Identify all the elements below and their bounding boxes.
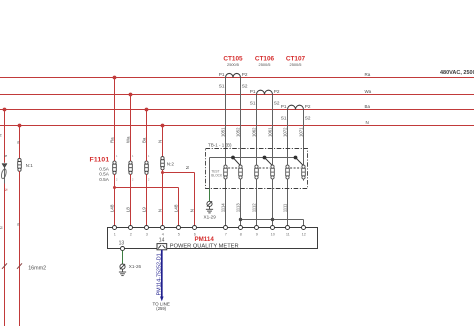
bus Ra <box>0 77 474 79</box>
svg-text:5: 5 <box>178 233 180 237</box>
test contact 6 <box>302 165 306 179</box>
svg-text:1072: 1072 <box>282 127 287 137</box>
wire Ra drop <box>114 78 116 162</box>
svg-text:N:1: N:1 <box>26 163 34 168</box>
svg-text:Wa: Wa <box>125 136 130 143</box>
svg-text:2500/5: 2500/5 <box>290 62 302 67</box>
wire 1052 <box>240 78 242 226</box>
link dashed pair 1 <box>228 167 238 169</box>
svg-text:4: 4 <box>162 233 164 237</box>
wire L48 jumper horizontal <box>115 187 179 189</box>
test contact 4 <box>271 165 275 179</box>
terminal 1 PM114 <box>113 226 117 230</box>
node shorting blade pivot 3 <box>294 156 298 160</box>
wire 1072 <box>287 110 289 226</box>
wire N drop <box>162 126 164 157</box>
wire L9 <box>146 174 148 225</box>
ground X1-26 <box>119 264 126 276</box>
bus Ba <box>0 109 474 111</box>
connector port 14 <box>157 244 167 250</box>
node bus Ba tap left <box>3 108 7 112</box>
svg-text:1113: 1113 <box>235 203 240 213</box>
svg-text:1111: 1111 <box>282 203 287 212</box>
svg-text:Ba: Ba <box>141 137 146 143</box>
svg-text:L48: L48 <box>109 204 114 212</box>
svg-text:1052: 1052 <box>235 127 240 137</box>
wire 1071 <box>303 110 305 181</box>
svg-text:P2: P2 <box>242 72 248 77</box>
wire 1062 <box>256 95 258 226</box>
svg-text:N: N <box>5 188 9 191</box>
svg-text:L9: L9 <box>141 207 146 213</box>
switch blade 1 <box>233 158 240 166</box>
svg-text:N: N <box>16 223 20 226</box>
svg-text:L8: L8 <box>125 207 130 213</box>
svg-text:1112: 1112 <box>251 203 256 213</box>
test contact 5 <box>286 165 290 179</box>
link dashed pair 3 <box>290 167 301 169</box>
ground X1-29 <box>206 201 213 213</box>
test contact 3 <box>255 165 259 179</box>
meter PM114 box <box>108 228 318 249</box>
svg-text:13: 13 <box>119 241 125 247</box>
svg-text:480VAC, 2500A: 480VAC, 2500A <box>440 70 474 76</box>
terminal 5 PM114 <box>177 226 181 230</box>
terminal 9 PM114 <box>255 226 259 230</box>
CT CT105 <box>226 73 241 77</box>
fuse F1101 pole 1 <box>113 161 117 174</box>
wire L48 <box>114 174 116 225</box>
node L48 jumper <box>113 186 116 189</box>
svg-text:N: N <box>16 141 20 144</box>
cable slash feeder B <box>17 263 22 268</box>
terminal 11 PM114 <box>286 226 290 230</box>
svg-text:S2: S2 <box>242 83 248 88</box>
svg-text:Ra: Ra <box>365 72 371 77</box>
svg-text:2500/5: 2500/5 <box>227 62 239 67</box>
node 1061 to common <box>271 218 274 221</box>
node bus N tap <box>161 124 165 128</box>
svg-text:0.5A: 0.5A <box>99 177 110 182</box>
connector plug feeder A <box>2 163 7 167</box>
svg-text:1061: 1061 <box>267 127 272 137</box>
node bus tap Ba <box>145 108 149 112</box>
svg-text:7: 7 <box>225 233 227 237</box>
wire CT common return <box>241 219 304 221</box>
svg-text:S1: S1 <box>219 83 225 88</box>
svg-text:TB-1 - 1 (B): TB-1 - 1 (B) <box>208 143 232 148</box>
svg-text:P1: P1 <box>281 104 287 109</box>
wire feeder A lower <box>4 184 6 326</box>
node shorting blade pivot 2 <box>263 156 267 160</box>
svg-text:P2: P2 <box>305 104 311 109</box>
svg-text:N: N <box>157 140 162 143</box>
wire L8 <box>130 174 132 225</box>
terminal 8 PM114 <box>239 226 243 230</box>
node bus tap Ra <box>113 76 117 80</box>
wire feeder A upper <box>4 110 6 163</box>
svg-text:1051: 1051 <box>220 127 225 137</box>
test block TB-1-1 (B) outline <box>206 149 308 189</box>
wire 1051 <box>225 78 227 226</box>
svg-text:1114: 1114 <box>220 203 225 213</box>
svg-text:N: N <box>0 226 4 229</box>
wire N to terminal 4 <box>162 170 164 226</box>
svg-text:N: N <box>185 166 190 169</box>
wire feeder B lower <box>19 171 21 326</box>
svg-text:P2: P2 <box>274 89 280 94</box>
svg-text:10: 10 <box>271 233 275 237</box>
svg-text:N:2: N:2 <box>167 161 175 166</box>
wire feeder A mid <box>4 167 6 183</box>
svg-text:N: N <box>157 209 162 212</box>
wire L48 jumper drop <box>178 188 180 226</box>
wire feeder B upper <box>19 126 21 159</box>
wire N jumper drop <box>194 173 196 226</box>
svg-text:16mm2: 16mm2 <box>28 265 46 271</box>
svg-text:X1-26: X1-26 <box>129 264 142 269</box>
svg-text:2500/5: 2500/5 <box>259 62 271 67</box>
wire 1061 <box>272 95 274 226</box>
svg-text:N: N <box>190 209 195 212</box>
wire N jumper horizontal <box>163 172 195 174</box>
terminal 13 PM114 <box>121 247 125 251</box>
svg-text:1071: 1071 <box>298 127 303 137</box>
test block ground bus <box>210 157 296 159</box>
node bus tap Wa <box>129 93 133 97</box>
test contact 2 <box>239 165 243 179</box>
terminal 3 PM114 <box>145 226 149 230</box>
svg-text:11: 11 <box>286 233 290 237</box>
wire Ba drop <box>146 110 148 162</box>
svg-text:BLOCK: BLOCK <box>211 173 223 177</box>
svg-text:Ba: Ba <box>365 104 371 109</box>
wire terminal 13 to ground <box>122 251 124 264</box>
svg-text:3: 3 <box>146 233 148 237</box>
svg-text:Wa: Wa <box>365 89 372 94</box>
terminal 12 PM114 <box>302 226 306 230</box>
svg-text:P1: P1 <box>219 72 225 77</box>
svg-text:S1: S1 <box>281 115 287 120</box>
svg-text:8: 8 <box>240 233 242 237</box>
node shorting blade pivot 1 <box>231 156 235 160</box>
node bus N tap left <box>18 124 22 128</box>
bus Wa <box>0 94 474 96</box>
svg-text:1: 1 <box>132 154 134 158</box>
svg-text:N: N <box>0 134 2 137</box>
fuse F1101 pole 2 <box>129 161 133 174</box>
cable slash feeder A <box>2 263 7 268</box>
CT loop feeder A <box>1 169 7 180</box>
svg-text:(259): (259) <box>156 306 166 311</box>
svg-text:L48: L48 <box>174 204 179 212</box>
svg-text:14: 14 <box>159 237 165 243</box>
svg-text:PM114: PM114 <box>195 236 215 243</box>
node N jumper <box>161 171 164 174</box>
svg-text:PM114-75252-D1: PM114-75252-D1 <box>156 253 162 295</box>
link dashed pair 2 <box>259 167 270 169</box>
terminal 10 PM114 <box>271 226 275 230</box>
svg-text:P1: P1 <box>250 89 256 94</box>
svg-text:2: 2 <box>130 233 132 237</box>
fuse N:2 <box>161 157 165 170</box>
svg-text:S2: S2 <box>305 115 311 120</box>
fuse F1101 pole 3 <box>145 161 149 174</box>
svg-text:1062: 1062 <box>251 127 256 137</box>
svg-text:1: 1 <box>148 154 150 158</box>
svg-text:2: 2 <box>132 177 134 181</box>
bus N <box>0 125 474 127</box>
fuse N:1 <box>18 158 22 171</box>
svg-text:12: 12 <box>302 233 306 237</box>
svg-text:N: N <box>366 120 369 125</box>
svg-text:X1-29: X1-29 <box>204 214 217 219</box>
terminal 7 PM114 <box>224 226 228 230</box>
CT CT107 <box>288 105 304 109</box>
terminal 2 PM114 <box>129 226 133 230</box>
CT CT106 <box>257 90 273 94</box>
svg-text:2: 2 <box>116 177 118 181</box>
svg-text:2: 2 <box>148 177 150 181</box>
svg-text:S2: S2 <box>274 100 280 105</box>
wire Wa drop <box>130 95 132 162</box>
switch blade 2 <box>265 158 273 166</box>
node 1113 to common <box>239 218 242 221</box>
svg-text:1: 1 <box>114 233 116 237</box>
svg-text:Ra: Ra <box>109 137 114 143</box>
svg-text:9: 9 <box>256 233 258 237</box>
svg-text:POWER QUALITY METER: POWER QUALITY METER <box>170 243 239 249</box>
svg-text:1: 1 <box>116 154 118 158</box>
svg-text:S1: S1 <box>250 100 256 105</box>
test contact 1 <box>224 165 228 179</box>
cable PM114-75252-D1 <box>161 250 163 297</box>
switch blade 3 <box>296 158 304 166</box>
svg-text:F1101: F1101 <box>90 156 110 163</box>
wire test block ground <box>209 189 211 202</box>
terminal 6 PM114 <box>193 226 197 230</box>
terminal 4 PM114 <box>161 226 165 230</box>
